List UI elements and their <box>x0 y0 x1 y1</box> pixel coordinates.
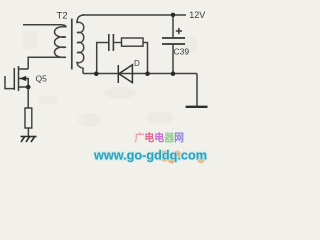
svg-text:Q5: Q5 <box>36 74 48 84</box>
wire output rail <box>83 73 197 75</box>
watermark mascot blob <box>160 151 206 164</box>
svg-text:D: D <box>134 59 140 68</box>
transistor Q5 <box>14 66 28 91</box>
ground right <box>186 106 208 108</box>
wire ground right lead <box>196 74 198 107</box>
snubber resistor <box>122 38 144 46</box>
source resistor <box>25 108 32 128</box>
diode D <box>118 65 132 83</box>
wire primary bottom to Q5 drain <box>28 57 66 69</box>
transistor Q5 body arrow <box>20 76 27 81</box>
wire Q5 source lead <box>27 87 29 108</box>
wire C39 top lead <box>172 15 174 37</box>
svg-text:广电电器网: 广电电器网 <box>135 131 185 144</box>
transformer T2 primary winding <box>55 25 66 58</box>
capacitor C39 <box>162 38 185 44</box>
wire 12V rail <box>82 14 186 16</box>
node 12V junction <box>171 13 176 18</box>
node Q5 source junction <box>26 85 31 90</box>
svg-text:www.go-gddq.com: www.go-gddq.com <box>93 148 207 163</box>
wire snubber middle <box>113 42 121 44</box>
node secondary-diode junction <box>94 71 99 76</box>
paper background <box>0 0 211 165</box>
wire C39 bottom lead <box>172 45 174 74</box>
ground left (hatched) <box>21 137 37 143</box>
wire primary top <box>23 24 62 26</box>
svg-text:12V: 12V <box>189 10 205 20</box>
node C39 output junction <box>171 71 176 76</box>
transformer T2 secondary winding <box>77 15 84 74</box>
wire snubber left lead <box>97 43 109 74</box>
node snubber-diode junction <box>145 71 150 76</box>
transformer T2 core <box>71 19 73 70</box>
svg-text:T2: T2 <box>57 11 68 22</box>
snubber capacitor <box>109 34 114 51</box>
capacitor C39 polarity plus <box>176 28 182 34</box>
wire resistor bottom lead <box>27 128 29 136</box>
wire snubber right lead <box>143 43 148 74</box>
svg-text:C39: C39 <box>174 47 190 57</box>
wire Q5 gate lead <box>5 76 14 89</box>
